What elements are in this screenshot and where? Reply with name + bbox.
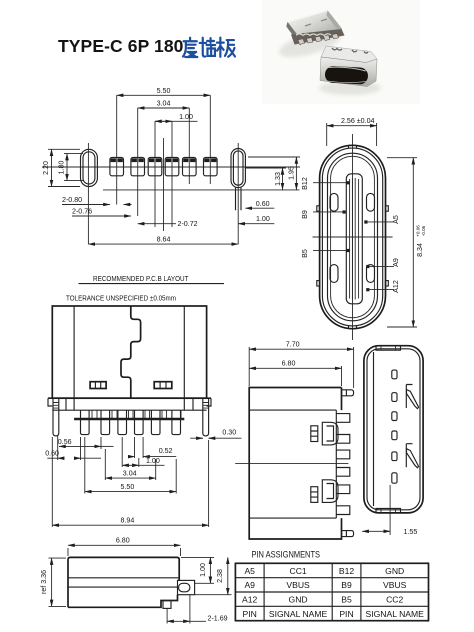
mating face view vertical centerline — [352, 134, 354, 340]
dim 3.04 mid — [105, 449, 155, 480]
top view right oval pad outer — [231, 149, 245, 188]
top view left oval centerline — [87, 143, 89, 244]
end view contact slot S5 — [392, 452, 397, 461]
end view top notch — [376, 346, 401, 351]
latch cutout left bottom — [330, 265, 338, 283]
glyph ban — [217, 38, 235, 57]
pin table row PIN SIGNAL NAME — [243, 609, 425, 619]
photo shadow left connector — [276, 26, 343, 63]
shell innermost outline — [331, 156, 375, 317]
photo left connector serrated pin band — [291, 29, 345, 45]
svg-text:3.04: 3.04 — [123, 469, 137, 477]
photo left connector right side face — [327, 11, 343, 35]
dim 1.00 top — [155, 113, 198, 121]
side view bottom corner tab — [342, 531, 354, 537]
top view center extension line — [163, 138, 165, 231]
pad P1 — [110, 95, 124, 204]
svg-text:+0.06: +0.06 — [416, 225, 421, 237]
pin table row A5 CC1 B12 GND — [244, 566, 404, 576]
svg-text:1.33: 1.33 — [274, 172, 282, 186]
svg-text:6.80: 6.80 — [116, 537, 130, 545]
svg-text:5.50: 5.50 — [121, 483, 135, 491]
pad P3 — [148, 121, 162, 227]
svg-text:GND: GND — [289, 595, 308, 605]
pin label A9 — [366, 258, 400, 268]
pin table row A12 GND B5 CC2 — [242, 595, 403, 605]
dim 1.80 — [57, 154, 83, 181]
pin F3 — [118, 410, 127, 434]
shell outer outline — [320, 145, 386, 328]
svg-text:0.30: 0.30 — [222, 429, 236, 437]
svg-text:6.80: 6.80 — [282, 360, 296, 368]
pin table grid — [235, 563, 428, 620]
dim 1.55 — [362, 485, 417, 536]
dim 5.50 mid — [85, 449, 176, 494]
dim 6.80 side — [249, 360, 341, 387]
svg-text:0.52: 0.52 — [159, 447, 173, 455]
svg-text:1.80: 1.80 — [57, 161, 65, 175]
photo right connector notches — [332, 48, 368, 53]
pin F4 — [135, 410, 144, 434]
svg-text:A12: A12 — [242, 595, 258, 605]
side view contact tab T5 — [336, 485, 350, 494]
end view latch recess bottom — [406, 444, 418, 468]
body inner wall right — [183, 306, 185, 398]
svg-text:TOLERANCE UNSPECIFIED ±0.05mm: TOLERANCE UNSPECIFIED ±0.05mm — [66, 294, 176, 303]
shell seam zigzag — [121, 306, 141, 398]
side view body bottom edge — [68, 595, 178, 608]
svg-text:B12: B12 — [301, 177, 309, 190]
callout 2-0.80 — [62, 196, 132, 205]
connector front body outline — [52, 306, 206, 398]
pin table row A9 VBUS B9 VBUS — [244, 580, 406, 590]
dim 2.38 side — [195, 557, 232, 594]
dim 8.34 — [387, 158, 426, 327]
dim 1.95 — [248, 157, 300, 190]
svg-text:5.50: 5.50 — [157, 87, 171, 95]
dim 8.94 — [52, 437, 208, 527]
photo shadow right connector — [319, 81, 381, 95]
svg-text:B9: B9 — [301, 210, 309, 219]
svg-text:CC1: CC1 — [289, 566, 306, 576]
pad P4 — [165, 121, 179, 227]
callout 2-0.76 — [72, 208, 131, 217]
dim 1.33 — [103, 168, 300, 190]
dim 0.60 — [245, 200, 274, 208]
mating face view horizontal centerline — [313, 236, 393, 238]
side view contact tab T6 — [336, 506, 350, 515]
svg-text:0.56: 0.56 — [58, 438, 72, 446]
side view middle-right body — [249, 388, 341, 540]
shell second outline — [322, 148, 382, 326]
shell stake tab left bottom — [317, 281, 320, 286]
shell stake tab right bottom — [386, 281, 389, 286]
top view horizontal centerline — [42, 166, 300, 168]
dim 6.80 bottom — [68, 537, 181, 556]
callout 2-0.72 — [138, 220, 198, 228]
insulator comb — [92, 410, 181, 418]
top view left oval pad inner — [83, 152, 95, 184]
tongue — [346, 174, 362, 304]
end view contact slot S4 — [392, 431, 397, 440]
svg-text:TYPE-C 6P 180: TYPE-C 6P 180 — [58, 36, 184, 56]
end view contact slot S1 — [392, 370, 397, 379]
title CJK glyphs — [183, 38, 235, 57]
latch cutout right top — [367, 193, 375, 211]
svg-text:B9: B9 — [341, 580, 352, 590]
dim 5.50 top — [117, 87, 211, 95]
title TYPE-C 6P 180 — [58, 36, 184, 56]
dim 2.56 +-0.04 — [327, 117, 377, 146]
shell stake tab left top — [317, 206, 320, 211]
top view right oval pad inner — [233, 151, 243, 185]
side view contact tab T3 — [336, 450, 350, 459]
side view contact tab T4 — [336, 468, 350, 477]
side view contact tab T1 — [336, 414, 350, 423]
dim 2-1.69 — [167, 595, 228, 623]
side view latch window bottom — [322, 480, 338, 503]
svg-text:CC2: CC2 — [386, 595, 403, 605]
photo left connector left edge — [286, 22, 302, 46]
end view outer outline — [364, 346, 423, 513]
side view internal lines — [68, 578, 179, 587]
svg-text:A12: A12 — [392, 280, 400, 293]
dim 8.64 — [88, 235, 238, 244]
svg-text:2.56 ±0.04: 2.56 ±0.04 — [341, 117, 375, 125]
insulator bottom edge — [74, 418, 184, 420]
svg-text:A9: A9 — [392, 258, 400, 267]
pin F2 — [101, 410, 110, 434]
svg-text:8.64: 8.64 — [157, 235, 171, 243]
photo right connector opening rim — [328, 67, 366, 71]
pad P2 — [131, 108, 145, 216]
pin F6 — [172, 410, 181, 434]
side view top corner tab — [342, 390, 354, 396]
side view contact block — [178, 580, 195, 594]
svg-text:RECOMMENDED P.C.B LAYOUT: RECOMMENDED P.C.B LAYOUT — [93, 274, 189, 283]
svg-text:1.00: 1.00 — [199, 563, 207, 577]
svg-text:1.00: 1.00 — [146, 457, 160, 465]
svg-text:2.20: 2.20 — [42, 161, 50, 175]
photo left connector top face — [288, 11, 343, 42]
end view inner face — [373, 352, 375, 506]
svg-text:2.38: 2.38 — [216, 569, 224, 583]
end view contact slot S6 — [392, 473, 397, 483]
body inner wall left — [73, 306, 75, 398]
dim 2.20 — [42, 149, 80, 186]
svg-text:B5: B5 — [341, 595, 352, 605]
svg-text:1.95: 1.95 — [288, 166, 296, 180]
pin F5 — [151, 410, 160, 434]
end view inner outline — [367, 349, 420, 510]
dim ref 3.36 — [40, 558, 66, 606]
dim 1.00 side — [181, 557, 214, 583]
svg-text:7.70: 7.70 — [286, 340, 300, 348]
dim 0.60 — [45, 436, 101, 460]
side view stake detail bottom — [311, 487, 318, 503]
dim 7.70 — [249, 340, 353, 388]
pin label B12 — [301, 177, 350, 190]
photo right connector opening lower rim — [327, 81, 366, 83]
photo right connector front face — [320, 57, 377, 87]
svg-text:PIN ASSIGNMENTS: PIN ASSIGNMENTS — [252, 550, 321, 561]
svg-text:3.04: 3.04 — [157, 100, 171, 108]
end view contact slot S3 — [392, 412, 397, 421]
side view bottom foot — [163, 601, 171, 609]
svg-text:1.00: 1.00 — [256, 215, 270, 223]
top view left oval pad outer — [81, 149, 98, 186]
photo left connector top edge highlight — [288, 11, 328, 23]
pad P6 — [204, 95, 218, 184]
mount leg right — [203, 398, 209, 436]
pin label B9 — [301, 210, 346, 219]
shell stake tab right top — [386, 206, 389, 211]
photo left connector pin teeth — [298, 34, 339, 45]
dim 0.56 — [58, 437, 114, 449]
heading recommended pcb layout — [66, 274, 224, 303]
stamp window right — [154, 382, 172, 389]
svg-text:8.34: 8.34 — [416, 243, 424, 257]
dim 0.52 — [128, 437, 176, 458]
svg-text:0.60: 0.60 — [256, 200, 270, 208]
side view latch window top — [322, 422, 338, 445]
dim 0.30 leg — [190, 429, 241, 439]
pin F1 — [81, 410, 90, 434]
photo of two type-c connectors — [262, 0, 420, 104]
svg-text:2-1.69: 2-1.69 — [208, 614, 228, 622]
side view centerline — [235, 462, 348, 464]
svg-text:B12: B12 — [339, 566, 355, 576]
photo right connector top face — [321, 46, 377, 63]
side view stake detail top — [311, 426, 318, 442]
svg-text:GND: GND — [385, 566, 404, 576]
photo left connector shell marks — [305, 19, 327, 26]
end view latch recess top — [406, 385, 418, 409]
stamp window left — [90, 382, 106, 389]
shell cavity outline — [328, 153, 378, 321]
glyph cha — [200, 38, 216, 57]
latch cutout right bottom — [367, 265, 375, 283]
svg-text:2-0.80: 2-0.80 — [62, 196, 82, 204]
svg-text:VBUS: VBUS — [286, 580, 310, 590]
shell crimp ticks — [349, 145, 357, 328]
svg-text:A9: A9 — [244, 580, 255, 590]
svg-text:A5: A5 — [392, 215, 400, 224]
svg-text:A5: A5 — [244, 566, 255, 576]
svg-text:8.94: 8.94 — [121, 516, 135, 524]
svg-text:VBUS: VBUS — [383, 580, 407, 590]
right oval legs — [236, 188, 242, 211]
pin label B5 — [301, 249, 350, 258]
pin label A12 — [366, 280, 400, 293]
end view bottom notch — [376, 508, 401, 513]
svg-text:2-0.72: 2-0.72 — [178, 220, 198, 228]
svg-text:PIN: PIN — [243, 609, 257, 619]
glyph du — [183, 38, 197, 57]
svg-text:SIGNAL NAME: SIGNAL NAME — [365, 609, 424, 619]
top view right oval centerline — [237, 143, 239, 244]
dim 1.00 mid — [122, 437, 164, 467]
tongue contact strips — [350, 178, 359, 300]
svg-text:2-0.76: 2-0.76 — [72, 208, 92, 216]
side view contact tab T2 — [336, 435, 350, 444]
svg-text:ref 3.36: ref 3.36 — [40, 570, 48, 594]
dim 1.00 right — [238, 215, 274, 224]
svg-text:1.00: 1.00 — [179, 113, 193, 121]
photo right connector dark opening — [325, 66, 369, 85]
flange band — [48, 398, 211, 410]
svg-text:-0.06: -0.06 — [421, 225, 426, 236]
svg-text:B5: B5 — [301, 249, 309, 258]
end view contact slot S2 — [392, 393, 397, 402]
svg-text:1.55: 1.55 — [404, 528, 418, 536]
pad P5 — [183, 108, 197, 184]
photo left connector solder wave — [296, 34, 331, 36]
svg-text:PIN: PIN — [339, 609, 353, 619]
svg-text:SIGNAL NAME: SIGNAL NAME — [269, 609, 328, 619]
latch cutout left top — [330, 193, 338, 211]
pin label A5 — [364, 215, 400, 224]
dim 3.04 top — [138, 100, 190, 108]
side view bottom-left body — [68, 557, 179, 607]
mount leg left — [53, 398, 59, 436]
